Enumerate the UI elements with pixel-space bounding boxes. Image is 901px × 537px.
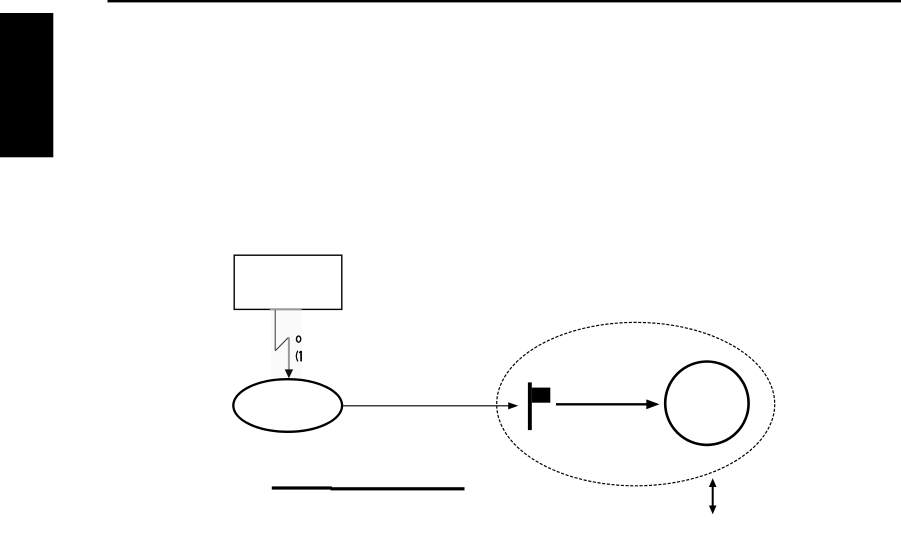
thin arrow head bbox=[508, 402, 518, 409]
lightning arrow head bbox=[285, 369, 293, 378]
bold arrow head bbox=[646, 399, 659, 409]
top rule bbox=[108, 0, 901, 2]
label "o" (clipped) bbox=[296, 336, 300, 342]
gray segment on box bottom edge bbox=[270, 308, 302, 310]
ellipse E1 bbox=[233, 379, 342, 432]
faint band under lightning arrow bbox=[271, 310, 302, 381]
baseline thick segment right bbox=[331, 487, 465, 490]
double arrow head bottom bbox=[709, 506, 717, 515]
box B1 bbox=[234, 255, 342, 309]
lightning arrow shaft (vertical + jog) bbox=[275, 310, 289, 371]
double arrow shaft bbox=[712, 485, 714, 509]
bold arrow shaft flag to circle bbox=[556, 403, 649, 405]
flag pole bbox=[528, 382, 532, 430]
sidebar block bbox=[0, 13, 53, 157]
white mask clipping labels at x=302 bbox=[302, 328, 342, 368]
label "(1" (clipped) bbox=[296, 351, 301, 362]
baseline thick segment left bbox=[272, 486, 332, 489]
double arrow head top bbox=[709, 478, 717, 487]
circle C1 bbox=[665, 362, 748, 445]
dashed ellipse E2 bbox=[497, 322, 775, 485]
thin arrow shaft E1 to flag bbox=[343, 405, 510, 407]
flag banner bbox=[532, 388, 551, 403]
